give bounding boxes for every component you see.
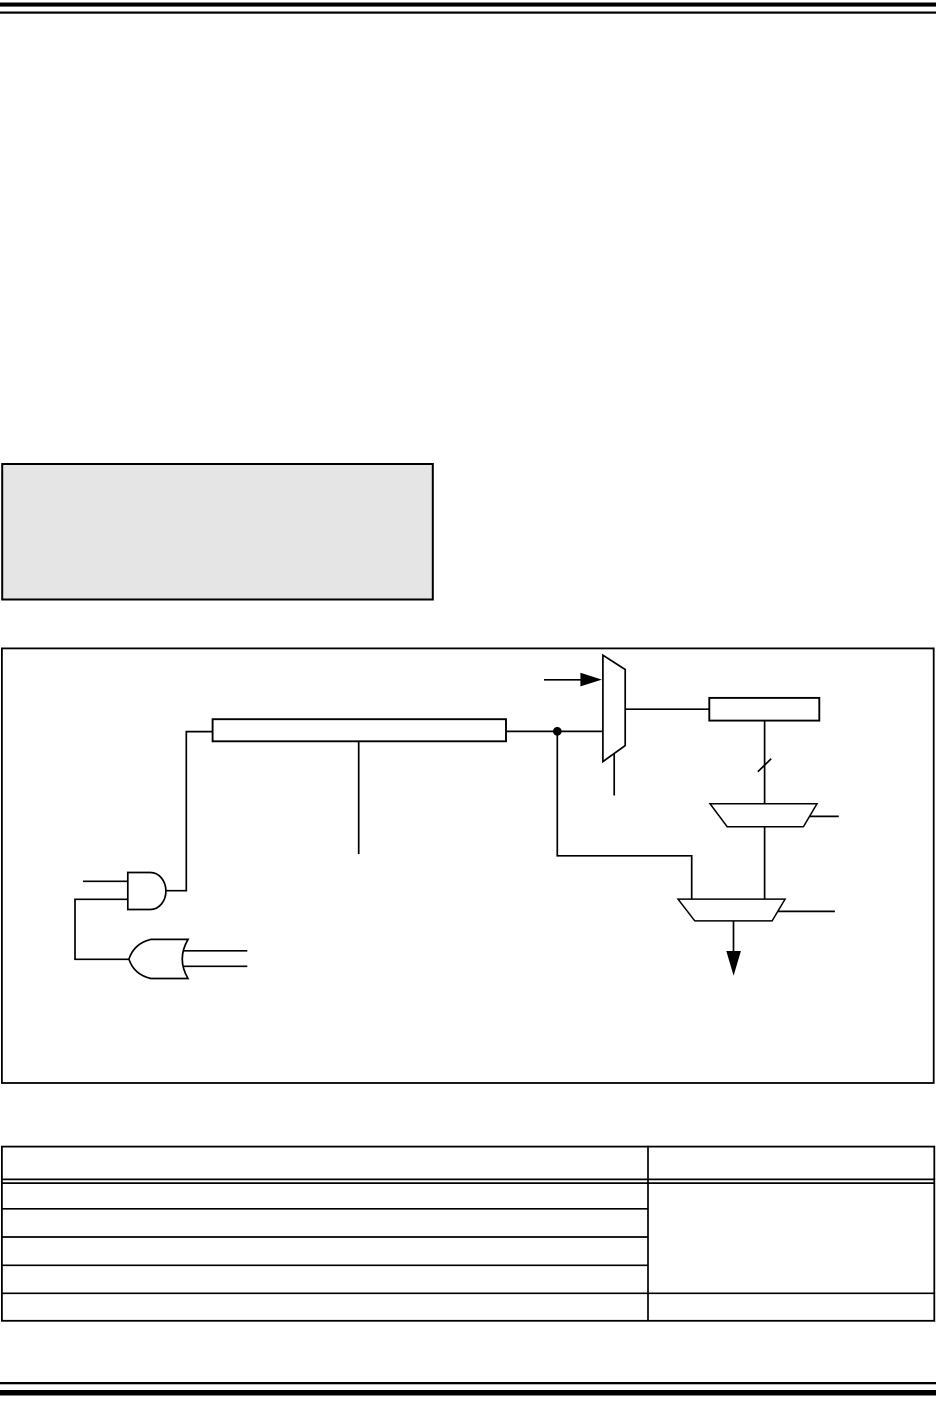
note box (shaded) [2,464,433,600]
wire: OR gate U2 upper input [183,950,247,952]
page footer thin rule [0,1382,936,1384]
wire: mux M2 output to mux M3 [764,827,766,899]
table outer border [2,1147,934,1321]
table column divider [647,1146,649,1321]
wire: REG1 right edge to mux M1 [506,730,603,732]
table row line 3 (left column only) [1,1264,648,1266]
mux M2 (upper trapezoid) [710,804,817,827]
wire: mux M2 select line [810,815,839,817]
node A (junction dot) [553,727,562,736]
register REG1 (long sync block) [213,719,506,741]
wire: AND gate U1 lower input from OR gate U2 output [75,899,129,959]
wire: OR gate U2 lower input [183,965,247,967]
register TMR0 [709,698,819,721]
AND gate U1 [128,873,166,910]
wire: mux M1 select stub [613,754,615,796]
wire: mux M3 output with arrowhead [733,921,735,952]
page header thin rule [0,12,936,14]
wire: mux M3 select line [778,910,835,912]
wire: node A down and right to mux M3 input [557,731,691,899]
wire: clock input with arrowhead into mux M1 [544,679,582,681]
mux M1 [603,655,625,761]
figure frame [2,648,934,1083]
table row line 1 (left column only) [1,1208,648,1210]
wire: mux M1 output to register TMR0 [625,708,709,710]
wire: AND gate U1 upper input [83,880,128,882]
page header thick rule [0,3,936,7]
mux M3 (lower trapezoid) [678,899,785,921]
OR gate U2 (mirrored, output at left) [129,939,188,978]
page footer thick rule [0,1390,936,1396]
wire: TMR0 bottom bus to mux M2 [764,721,766,804]
wire: REG1 bottom stub [358,741,360,854]
table row line 2 (left column only) [1,1236,648,1238]
table row line 4 (full width) [1,1292,935,1294]
wire: REG1 left edge to AND gate output [166,732,213,891]
bus width slash [758,759,771,772]
table header double line [1,1178,935,1180]
